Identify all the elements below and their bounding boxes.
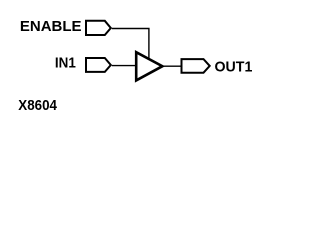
wire buffer output to OUT1 pin bbox=[162, 65, 181, 67]
svg-text:X8604: X8604 bbox=[18, 97, 57, 114]
svg-text:ENABLE: ENABLE bbox=[20, 18, 82, 35]
wire ENABLE net: pin tip right then down to buffer top bbox=[112, 29, 149, 60]
pin IN1 bbox=[86, 58, 111, 72]
wire IN1 to buffer input bbox=[112, 65, 136, 67]
svg-text:OUT1: OUT1 bbox=[215, 59, 253, 76]
svg-text:IN1: IN1 bbox=[55, 54, 76, 71]
pin ENABLE bbox=[86, 21, 111, 35]
buffer U1 (triangle) bbox=[136, 52, 162, 80]
pin OUT1 bbox=[182, 59, 210, 73]
